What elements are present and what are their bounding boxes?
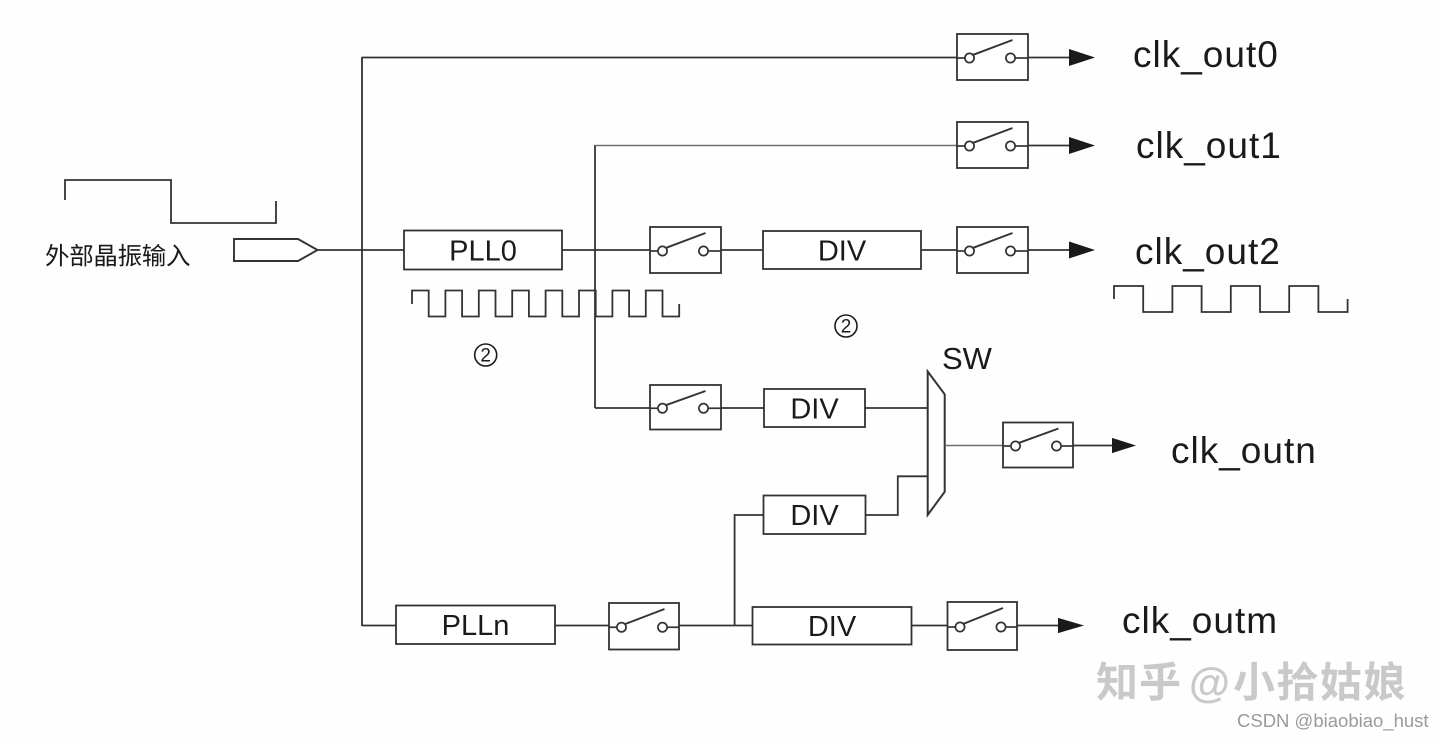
svg-text:PLLn: PLLn bbox=[442, 610, 510, 642]
svg-text:clk_out0: clk_out0 bbox=[1133, 34, 1279, 75]
svg-text:@: @ bbox=[1189, 659, 1230, 706]
svg-text:clk_out1: clk_out1 bbox=[1136, 125, 1282, 166]
svg-text:clk_outn: clk_outn bbox=[1171, 430, 1317, 471]
svg-text:clk_out2: clk_out2 bbox=[1135, 231, 1281, 272]
svg-text:DIV: DIV bbox=[790, 500, 839, 532]
svg-text:PLL0: PLL0 bbox=[449, 235, 517, 267]
svg-text:clk_outm: clk_outm bbox=[1122, 600, 1278, 641]
svg-text:2: 2 bbox=[480, 346, 491, 367]
svg-text:2: 2 bbox=[841, 317, 852, 338]
svg-text:SW: SW bbox=[942, 341, 993, 376]
svg-text:DIV: DIV bbox=[808, 611, 857, 643]
svg-text:CSDN @biaobiao_hust: CSDN @biaobiao_hust bbox=[1237, 710, 1429, 732]
svg-text:DIV: DIV bbox=[818, 235, 867, 267]
svg-text:DIV: DIV bbox=[790, 393, 839, 425]
